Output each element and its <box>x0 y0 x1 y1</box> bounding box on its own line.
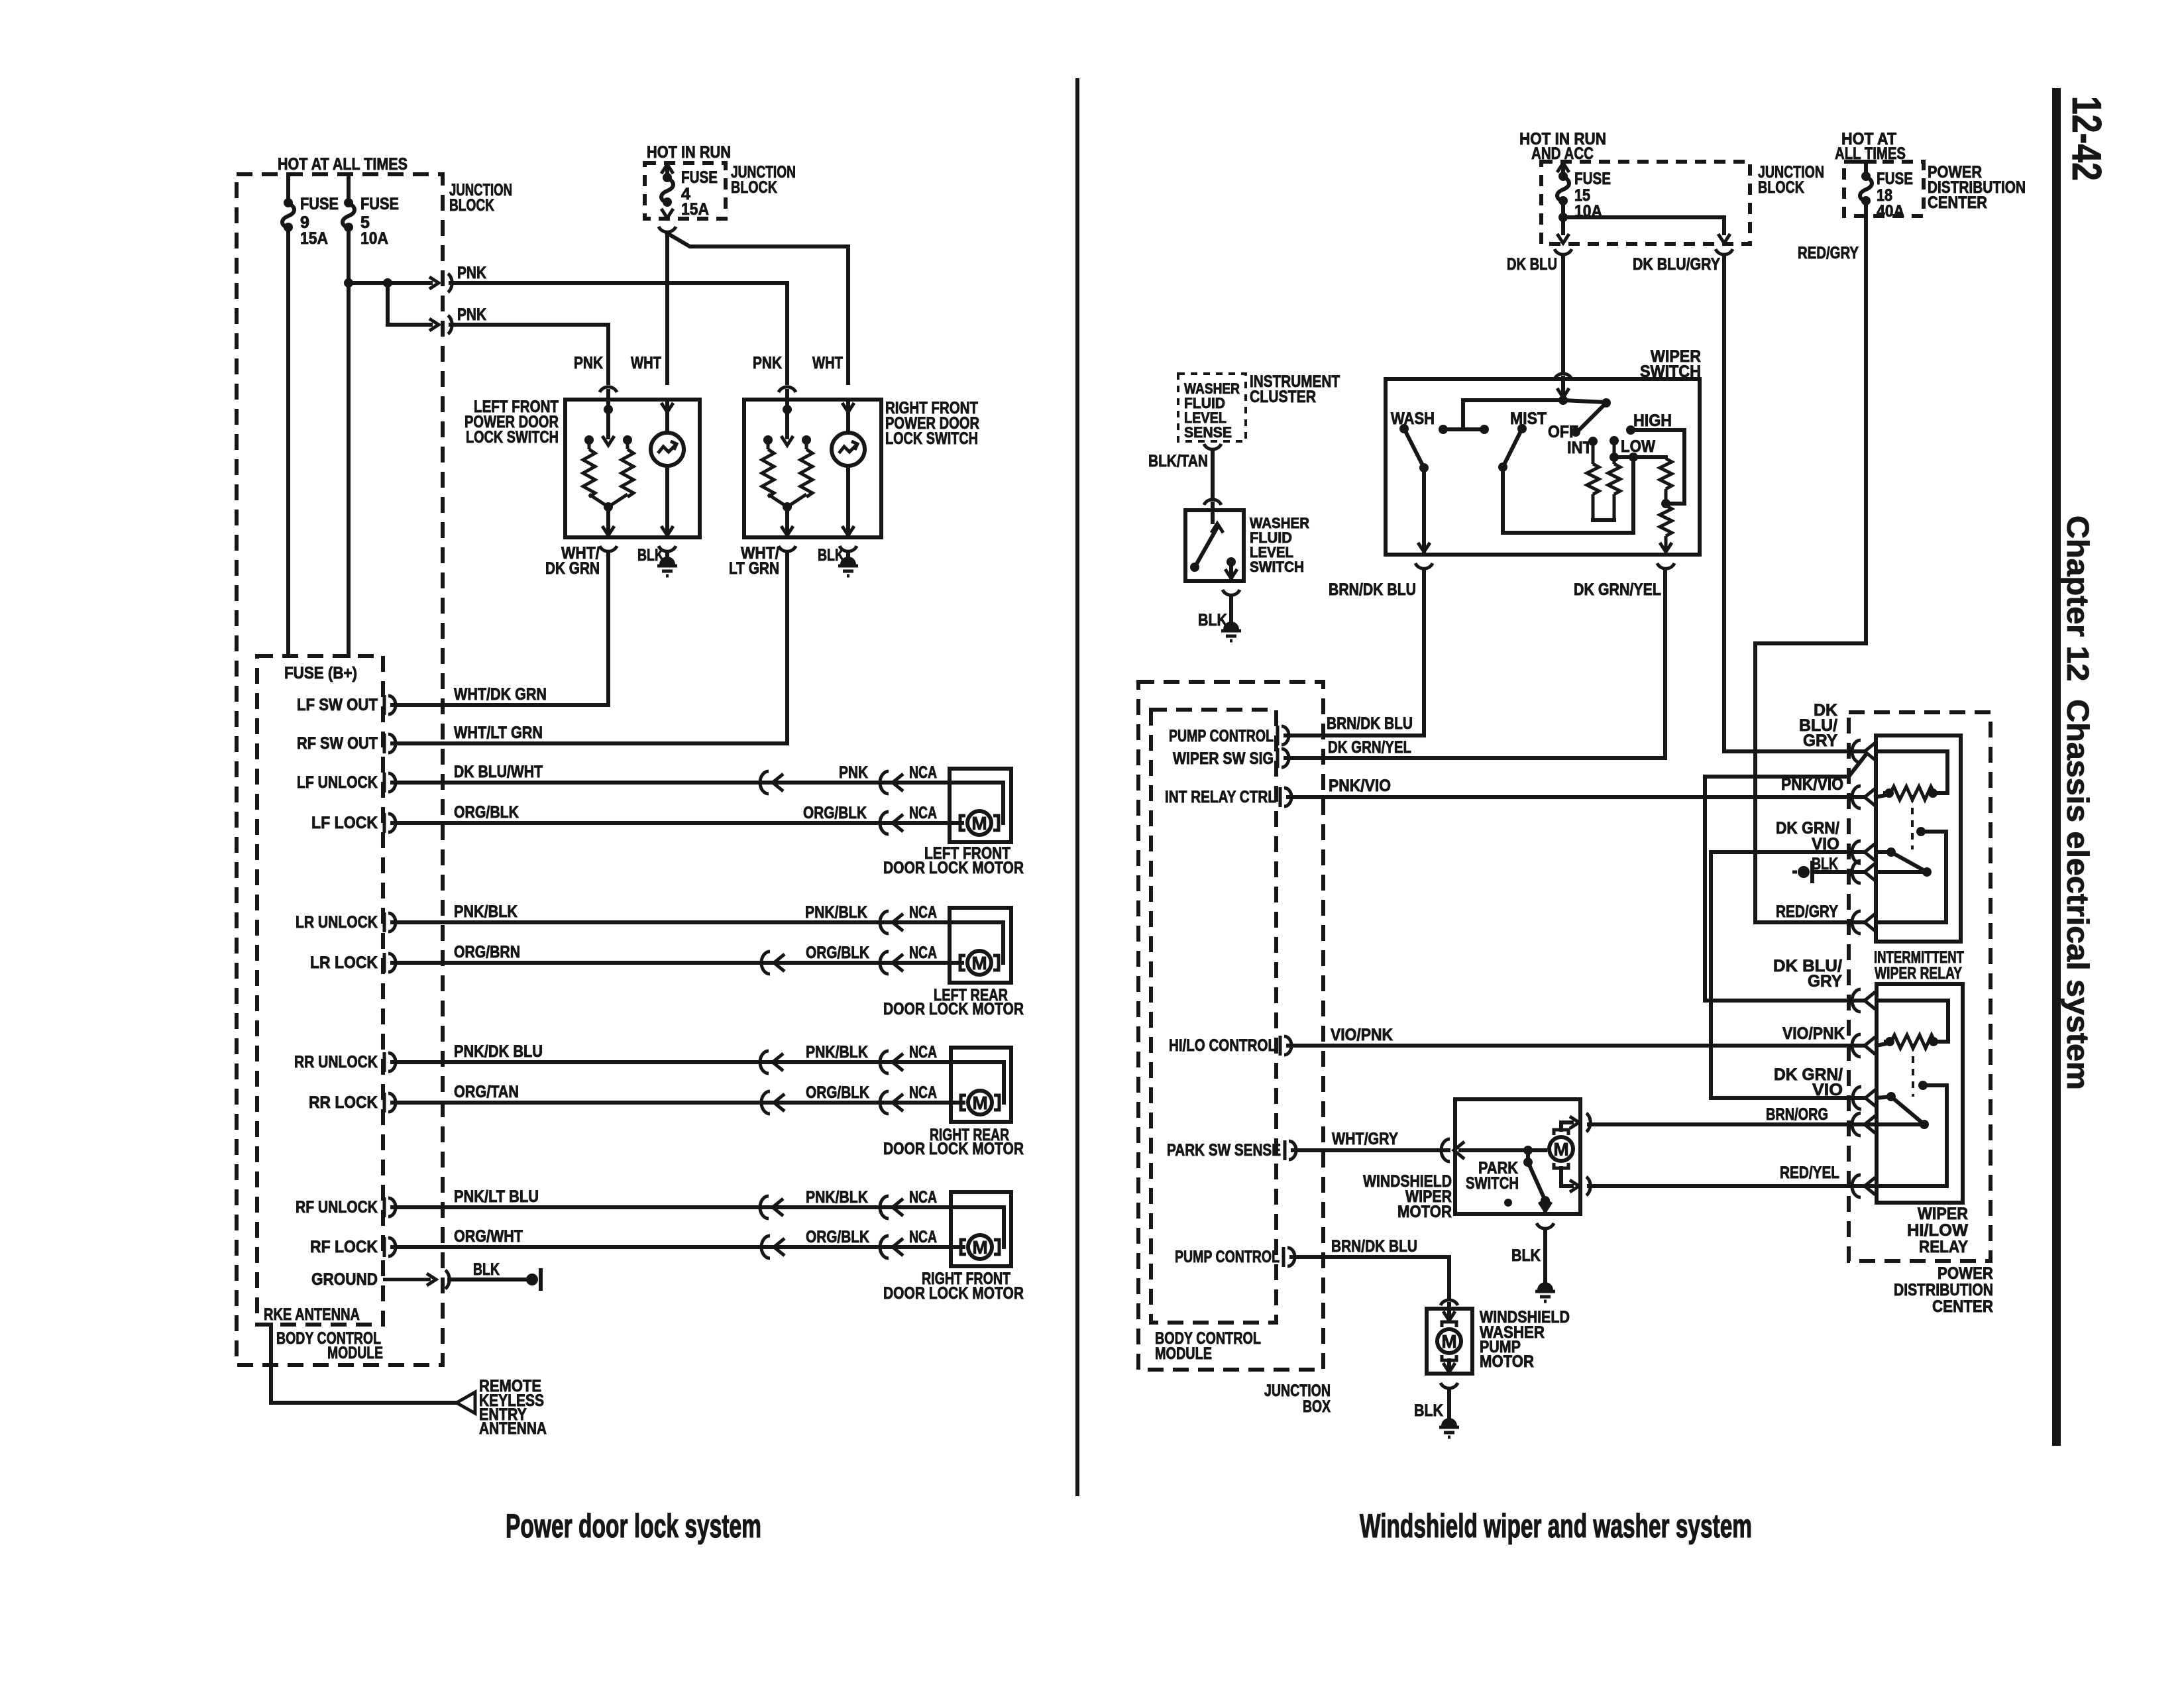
wire unlock into right front motor <box>951 1207 1004 1247</box>
node dot right switch common <box>783 405 792 414</box>
svg-text:LR UNLOCK: LR UNLOCK <box>296 913 378 932</box>
connector cap washer pump motor <box>1441 1300 1458 1305</box>
wire PNK feed 1 inside junction block <box>349 281 431 285</box>
svg-text:VIO: VIO <box>1812 1081 1843 1099</box>
wire INT/LOW resistor U join <box>1593 518 1614 522</box>
svg-text:PNK/LT BLU: PNK/LT BLU <box>454 1187 539 1206</box>
node dot park blade end <box>1541 1196 1550 1205</box>
svg-text:LOW: LOW <box>1621 437 1655 456</box>
wire fuse 5 feed <box>347 174 351 203</box>
wire RKE antenna lead <box>271 1325 457 1403</box>
node dot int relay upper contact <box>1916 827 1926 836</box>
connector int relay pin 2 <box>1852 786 1875 808</box>
right front door lock motor box <box>951 1192 1011 1266</box>
connector at right front motor lock <box>880 1236 903 1258</box>
svg-text:NCA: NCA <box>909 1083 937 1102</box>
page divider line between diagrams <box>1075 80 1079 1494</box>
resistor left switch lock side <box>588 440 591 449</box>
switch blade hi-low relay <box>1891 1097 1924 1124</box>
wire lock into right front motor <box>951 1245 963 1249</box>
wire RR UNLOCK to right rear motor <box>392 1060 951 1064</box>
connector cup below washer pump <box>1441 1383 1458 1388</box>
wire DK GRN/VIO tie to hi-low relay <box>1711 852 1864 1098</box>
fuse F4 symbol <box>661 173 673 207</box>
dashed armature link hi-low relay <box>1912 1044 1914 1097</box>
left front door lock motor box <box>950 769 1011 842</box>
svg-text:WIPER SW SIG: WIPER SW SIG <box>1173 749 1274 768</box>
wire BLK left lamp to ground <box>665 553 669 563</box>
wire LR LOCK to left rear motor <box>392 961 950 965</box>
node dot OFF contact <box>1571 427 1580 437</box>
node dot washer switch output <box>1227 557 1236 567</box>
wire BRN/ORG to hi-low relay <box>1589 1122 1877 1126</box>
svg-text:FUSE: FUSE <box>1574 170 1611 188</box>
wire washer switch output <box>1229 562 1233 580</box>
dashed armature link int relay <box>1911 795 1914 849</box>
svg-text:BLK: BLK <box>1511 1246 1541 1265</box>
switch blade off position <box>1578 403 1606 431</box>
svg-text:LOCK SWITCH: LOCK SWITCH <box>885 429 978 448</box>
wire BLK to int relay pin 3b <box>1814 870 1863 874</box>
connector at right rear motor lock <box>880 1091 903 1114</box>
wire washer pump to bottom <box>1447 1360 1451 1374</box>
wire WHT/DK GRN down to LF SW OUT <box>392 553 608 705</box>
wire RED/GRY jog left <box>1755 643 1866 922</box>
wire wiper motor brush high <box>1561 1122 1572 1130</box>
connector cup below sense box <box>1204 444 1221 449</box>
svg-text:VIO/PNK: VIO/PNK <box>1782 1024 1845 1043</box>
node dot unlock contact <box>623 435 632 445</box>
svg-text:ORG/BLK: ORG/BLK <box>806 1083 869 1102</box>
wire BRN/DK BLU to washer pump <box>1291 1257 1449 1297</box>
wire PNK1 to right front switch <box>451 281 787 285</box>
connector cups below right switch <box>779 546 796 551</box>
svg-text:DOOR LOCK MOTOR: DOOR LOCK MOTOR <box>883 859 1024 877</box>
resistor hi-low relay coil <box>1891 1035 1935 1048</box>
wire LF SW OUT <box>392 703 608 707</box>
svg-text:BLK: BLK <box>818 546 844 565</box>
svg-text:RED/YEL: RED/YEL <box>1780 1164 1839 1182</box>
connector int relay pin 4 <box>1852 911 1875 934</box>
wire pin 3b inside <box>1876 870 1927 874</box>
svg-text:CENTER: CENTER <box>1928 193 1987 212</box>
svg-text:HIGH: HIGH <box>1633 411 1672 430</box>
connector int relay pin 3b <box>1852 861 1875 883</box>
svg-text:WHT/LT GRN: WHT/LT GRN <box>454 724 543 742</box>
wire mist output loop <box>1503 457 1633 533</box>
connector cap at washer switch <box>1204 500 1221 505</box>
svg-text:INT RELAY CTRL: INT RELAY CTRL <box>1165 788 1276 806</box>
svg-text:FUSE: FUSE <box>360 195 399 213</box>
connector int relay pin 1 <box>1852 740 1875 763</box>
junction block outer dashed box <box>237 174 443 1365</box>
wire lock into right rear motor <box>951 1101 963 1105</box>
wire RED/GRY into int relay pin 4 <box>1755 920 1863 924</box>
wire GROUND out of BCM <box>383 1278 431 1281</box>
wires resistor bottoms join right <box>768 494 806 507</box>
connector cup below junction block right exit <box>1716 249 1733 254</box>
ground washer level switch <box>1221 622 1241 641</box>
connector cups below wiper switch <box>1415 563 1433 569</box>
left rear door lock motor box <box>950 908 1011 983</box>
wire contact to pin 4 hi-low <box>1877 1085 1947 1186</box>
wire lamp to box bottom <box>665 466 669 537</box>
svg-text:BRN/ORG: BRN/ORG <box>1766 1105 1828 1124</box>
wire WHT/LT GRN down to RF SW OUT <box>392 553 787 743</box>
node junction dot fuse15 branch <box>1558 213 1568 222</box>
svg-text:BLK: BLK <box>473 1260 500 1279</box>
svg-text:MOTOR: MOTOR <box>1480 1352 1534 1371</box>
wire BLK park switch <box>1543 1230 1547 1289</box>
node dot hi-low pivot <box>1886 1092 1896 1101</box>
wire unlock into right rear motor <box>951 1062 1004 1103</box>
wire divider to HIGH contact <box>1631 430 1684 504</box>
connector hi-low relay pin 1 <box>1852 989 1875 1012</box>
wire BLK washer switch <box>1229 596 1233 628</box>
node dot hi-low upper contact <box>1918 1081 1928 1090</box>
svg-text:PNK/BLK: PNK/BLK <box>806 1043 868 1061</box>
node dot washer blade end <box>1190 563 1199 572</box>
switch blade int relay <box>1891 852 1927 872</box>
node junction dot PNK branch <box>383 278 392 288</box>
svg-text:RR LOCK: RR LOCK <box>309 1093 378 1112</box>
node dot right switch output <box>783 502 792 512</box>
node dot left switch output <box>604 502 613 512</box>
hi-low relay coil frame <box>1877 1001 1948 1042</box>
switch blade wash <box>1404 429 1424 468</box>
wire fuse 15 feed <box>1561 166 1565 177</box>
wire PNK1 drop to right front switch <box>785 283 789 383</box>
switch blade washer level <box>1211 523 1223 533</box>
svg-text:GROUND: GROUND <box>311 1270 378 1289</box>
junction block (fuse 4) dashed box <box>645 163 726 219</box>
connector on RR LOCK wire <box>761 1091 785 1114</box>
svg-text:RR UNLOCK: RR UNLOCK <box>294 1053 378 1071</box>
fuse F15 symbol <box>1557 172 1569 205</box>
connector int relay pin 3 <box>1852 841 1875 863</box>
wire wash contact bar <box>1443 427 1484 431</box>
svg-text:BLK/TAN: BLK/TAN <box>1148 452 1208 470</box>
left front power door lock switch box <box>565 400 700 537</box>
body control module dashed box <box>257 656 383 1325</box>
wire DK GRN/YEL down to BCM wiper sw sig <box>1285 570 1665 758</box>
connector cups below left switch <box>600 546 617 551</box>
resistor LOW <box>1613 441 1616 464</box>
node dot coil left <box>1884 789 1894 798</box>
connector hi-low relay pin 2 <box>1852 1034 1875 1057</box>
node dot WASH contact <box>1399 424 1409 433</box>
svg-text:PNK/VIO: PNK/VIO <box>1329 777 1391 795</box>
wire lock into left front motor <box>950 821 962 825</box>
wire RR LOCK to right rear motor <box>392 1101 951 1105</box>
svg-text:FUSE: FUSE <box>1877 170 1913 188</box>
svg-text:BLOCK: BLOCK <box>731 178 777 197</box>
node dot divider mid <box>1661 499 1670 508</box>
wire INT RELAY CTRL to intermittent relay <box>1288 795 1865 799</box>
svg-text:FUSE: FUSE <box>300 195 339 213</box>
svg-text:RF SW OUT: RF SW OUT <box>297 734 378 753</box>
svg-text:WASH: WASH <box>1391 409 1435 428</box>
wire wiper motor brush low <box>1561 1168 1572 1186</box>
svg-text:RF UNLOCK: RF UNLOCK <box>296 1198 378 1217</box>
svg-text:SWITCH: SWITCH <box>1250 559 1304 575</box>
wire pin 2 to coil <box>1876 794 1889 797</box>
resistor low-speed divider lower <box>1660 506 1672 536</box>
wire LF UNLOCK to left front motor <box>392 781 950 785</box>
svg-text:NCA: NCA <box>909 903 937 922</box>
wire into washer pump <box>1447 1304 1451 1321</box>
wire RF LOCK to right front motor <box>392 1245 951 1249</box>
wire BLK washer pump <box>1447 1389 1451 1425</box>
intermittent wiper relay box <box>1876 735 1961 942</box>
svg-text:RKE ANTENNA: RKE ANTENNA <box>264 1305 360 1324</box>
svg-text:CLUSTER: CLUSTER <box>1250 388 1316 406</box>
node dot wiper switch common <box>1558 396 1568 405</box>
svg-text:40A: 40A <box>1877 202 1904 221</box>
svg-text:ORG/BLK: ORG/BLK <box>454 803 519 822</box>
motor M right front <box>961 1235 999 1259</box>
node dot hi-low coil right <box>1929 1037 1938 1046</box>
svg-text:LR LOCK: LR LOCK <box>310 953 378 972</box>
wire fuse 18 feed tick <box>1857 160 1875 164</box>
resistor low-speed divider upper <box>1660 459 1672 489</box>
connector on RF LOCK wire <box>761 1236 785 1258</box>
svg-text:BRN/DK BLU: BRN/DK BLU <box>1331 1237 1417 1256</box>
wire rotor to off <box>1563 400 1605 402</box>
wire RED/GRY long drop <box>1864 201 1868 643</box>
ground int relay <box>1792 861 1814 883</box>
wire BRN/DK BLU down to BCM pump control <box>1285 570 1424 735</box>
wire WHT diagonal branch <box>667 233 848 246</box>
svg-text:PNK/BLK: PNK/BLK <box>806 1188 868 1207</box>
svg-text:WHT/DK GRN: WHT/DK GRN <box>454 685 547 704</box>
svg-text:RELAY: RELAY <box>1919 1238 1968 1256</box>
svg-text:LT GRN: LT GRN <box>729 559 779 578</box>
node dot park switch tap <box>1523 1146 1533 1155</box>
svg-text:ANTENNA: ANTENNA <box>479 1419 547 1438</box>
lamp right switch illumination <box>842 403 854 412</box>
wire right lamp to box bottom <box>846 466 850 537</box>
node dot HIGH contact <box>1626 425 1635 435</box>
svg-text:Chapter 12 Chassis electrical: Chapter 12 Chassis electrical system <box>2061 516 2095 1090</box>
svg-text:LF LOCK: LF LOCK <box>311 814 378 832</box>
svg-text:PNK/BLK: PNK/BLK <box>454 902 518 921</box>
connector at right front motor unlock <box>880 1196 903 1219</box>
svg-text:PARK SW SENSE: PARK SW SENSE <box>1167 1141 1281 1160</box>
connector arrow down DK BLU exit <box>1557 234 1569 243</box>
svg-text:PNK/DK BLU: PNK/DK BLU <box>454 1042 543 1061</box>
node dot hi-low blade end <box>1920 1120 1929 1129</box>
svg-text:PUMP CONTROL: PUMP CONTROL <box>1175 1248 1280 1266</box>
wire DK BLU/GRY into int relay pin 1 <box>1724 749 1863 753</box>
svg-text:RF LOCK: RF LOCK <box>310 1238 378 1256</box>
svg-text:POWER: POWER <box>1938 1264 1993 1283</box>
wire exit BRN/ORG with arrow <box>1570 1116 1579 1128</box>
svg-text:NCA: NCA <box>909 944 937 962</box>
svg-text:HOT AT ALL TIMES: HOT AT ALL TIMES <box>278 155 408 174</box>
connector on LF UNLOCK wire <box>760 771 783 794</box>
svg-text:LOCK SWITCH: LOCK SWITCH <box>466 428 559 447</box>
power distribution center dashed box <box>1849 712 1991 1261</box>
svg-text:PNK: PNK <box>574 354 603 372</box>
ground left lamp <box>657 557 677 576</box>
svg-text:12-42: 12-42 <box>2063 96 2109 181</box>
switch blade mist <box>1503 429 1522 467</box>
svg-text:WHT/GRY: WHT/GRY <box>1332 1130 1398 1148</box>
wire left switch wiper arm <box>606 409 610 437</box>
lamp left switch illumination <box>661 403 673 412</box>
connector cup below washer switch <box>1223 590 1240 595</box>
svg-text:ORG/BLK: ORG/BLK <box>806 944 869 962</box>
node dot wash blade end <box>1419 463 1429 472</box>
node dot hi-low coil left <box>1885 1037 1894 1046</box>
svg-text:NCA: NCA <box>909 1043 937 1061</box>
svg-text:DK BLU/WHT: DK BLU/WHT <box>454 763 543 781</box>
svg-text:ORG/TAN: ORG/TAN <box>454 1083 519 1101</box>
wire park switch to ground exit <box>1543 1201 1547 1213</box>
wire right switch output to box edge <box>785 507 789 537</box>
svg-text:WIPER: WIPER <box>1918 1205 1968 1223</box>
wire fuse 9 output to BCM <box>286 227 290 656</box>
wire branch to DK BLU/GRY drop <box>1563 217 1724 233</box>
wire LOW node to divider <box>1614 455 1666 459</box>
connector at left rear motor unlock <box>880 911 903 934</box>
connector hi-low relay pin 3 <box>1853 1087 1876 1109</box>
svg-text:MOTOR: MOTOR <box>1397 1203 1452 1221</box>
connector cap at wiper switch feed <box>1555 374 1572 379</box>
node dot park switch indicator <box>1504 1199 1512 1207</box>
wire fuse 4 feed <box>665 167 669 178</box>
wiper hi/low relay box <box>1877 984 1963 1203</box>
wire fuse 9 feed <box>286 174 290 203</box>
svg-text:SWITCH: SWITCH <box>1466 1174 1519 1193</box>
fuse F9 symbol <box>282 198 294 232</box>
svg-text:BOX: BOX <box>1303 1397 1331 1416</box>
wire PNK branch drop <box>386 283 390 325</box>
node dot lock contact <box>584 435 594 445</box>
node dot wash bar left <box>1439 425 1448 434</box>
svg-text:BLOCK: BLOCK <box>1758 178 1804 197</box>
wire DK BLU/GRY long drop <box>1722 256 1726 751</box>
svg-text:MIST: MIST <box>1510 409 1547 428</box>
svg-text:Windshield wiper and washer sy: Windshield wiper and washer system <box>1360 1507 1752 1545</box>
svg-text:PNK: PNK <box>457 305 486 324</box>
washer fluid level sense dashed box <box>1178 374 1246 441</box>
wire DK GRN/VIO into int relay pin 3 <box>1711 850 1863 854</box>
svg-text:NCA: NCA <box>909 804 937 822</box>
svg-text:LF SW OUT: LF SW OUT <box>297 696 378 714</box>
svg-text:HI/LOW: HI/LOW <box>1907 1221 1968 1240</box>
wire park sense inside motor <box>1460 1148 1545 1152</box>
motor M left rear <box>960 951 999 975</box>
svg-text:PNK: PNK <box>753 354 782 372</box>
node junction dot fuse5/PNK1 <box>344 278 353 288</box>
connector cap at right switch PNK terminal <box>779 387 796 392</box>
antenna symbol remote keyless entry <box>457 1392 475 1413</box>
windshield wiper motor box <box>1455 1099 1580 1214</box>
wire right switch wiper arm <box>785 409 789 437</box>
wire RF UNLOCK to right front motor <box>392 1205 951 1209</box>
svg-text:ORG/WHT: ORG/WHT <box>454 1227 523 1246</box>
svg-text:DOOR LOCK MOTOR: DOOR LOCK MOTOR <box>883 1284 1024 1303</box>
svg-text:DK GRN/YEL: DK GRN/YEL <box>1328 738 1411 757</box>
node dot int relay pivot <box>1886 847 1896 857</box>
svg-text:BLOCK: BLOCK <box>449 196 494 215</box>
wire unlock into left rear motor <box>950 922 1003 963</box>
resistor INT <box>1592 441 1595 464</box>
body control module dashed box (right) <box>1151 710 1276 1323</box>
resistor int relay coil <box>1890 787 1934 800</box>
connector at wiper motor park sense <box>1441 1139 1464 1162</box>
wire WHT branch drop to right front switch lamp <box>846 246 850 383</box>
svg-text:ORG/BRN: ORG/BRN <box>454 943 520 961</box>
wire common bus left <box>1463 400 1563 429</box>
wire DK BLU down to wiper switch <box>1561 256 1565 371</box>
power distribution center fuse dashed box <box>1844 162 1924 216</box>
node dot mist blade end <box>1498 463 1507 472</box>
connector at left front motor lock <box>880 812 903 834</box>
svg-text:GRY: GRY <box>1808 972 1842 991</box>
wire PNK2 to left front switch <box>451 323 608 327</box>
svg-text:HI/LO CONTROL: HI/LO CONTROL <box>1169 1036 1276 1055</box>
node dot INT contact <box>1588 437 1598 446</box>
svg-text:ORG/BLK: ORG/BLK <box>803 804 867 822</box>
motor M windshield wiper <box>1549 1130 1573 1168</box>
junction box outer dashed box (right BCM) <box>1138 682 1323 1370</box>
wire PNK into right switch <box>785 391 789 409</box>
connector cup below wiper motor <box>1537 1223 1554 1228</box>
wire left switch output to box edge <box>606 507 610 537</box>
node dot int relay blade end <box>1922 867 1932 877</box>
node dot rotor <box>1602 398 1611 408</box>
right front power door lock switch box <box>744 400 881 537</box>
wire pin 3b inside hi-low <box>1877 1122 1924 1126</box>
wire DK BLU/GRY branch diagonal <box>1849 755 1865 777</box>
connector at right rear motor unlock <box>880 1051 903 1073</box>
windshield washer pump motor box <box>1427 1309 1472 1374</box>
wire wash output <box>1422 468 1426 553</box>
svg-text:CENTER: CENTER <box>1932 1297 1993 1316</box>
wire PNK2 drop to left front switch <box>606 325 610 383</box>
wire BLK to ground <box>449 1278 525 1281</box>
node dot wash bar right <box>1480 425 1489 434</box>
wire unlock into left front motor <box>950 783 1003 823</box>
motor M right rear <box>961 1091 999 1115</box>
wire into washer level switch <box>1211 504 1215 522</box>
svg-text:MODULE: MODULE <box>1155 1344 1212 1363</box>
wire LR UNLOCK to left rear motor <box>392 920 950 924</box>
svg-text:WHT: WHT <box>812 354 843 372</box>
svg-text:DK GRN: DK GRN <box>545 559 600 578</box>
svg-text:VIO/PNK: VIO/PNK <box>1331 1026 1393 1044</box>
wire PNK feed 2 inside junction block <box>388 323 431 327</box>
svg-text:GRY: GRY <box>1803 732 1837 750</box>
connector at left front motor <box>880 771 903 794</box>
connector arrow PNK2 at junction block edge <box>429 319 439 331</box>
connector cup below fuse 4 box <box>659 227 676 232</box>
switch blade park <box>1526 1150 1530 1162</box>
svg-text:DISTRIBUTION: DISTRIBUTION <box>1894 1281 1993 1299</box>
svg-text:WHT: WHT <box>631 354 661 372</box>
wire PARK SW SENSE to wiper motor <box>1293 1148 1448 1152</box>
svg-text:NCA: NCA <box>909 1228 937 1246</box>
svg-text:FUSE: FUSE <box>681 168 718 187</box>
connector at left rear motor lock <box>880 952 903 974</box>
wire WHT fuse4 down to left front switch lamp <box>665 233 669 383</box>
svg-text:RED/GRY: RED/GRY <box>1776 902 1838 921</box>
fuse F18 symbol <box>1860 172 1872 205</box>
wire HI/LO CONTROL to hi-low relay <box>1288 1044 1865 1048</box>
